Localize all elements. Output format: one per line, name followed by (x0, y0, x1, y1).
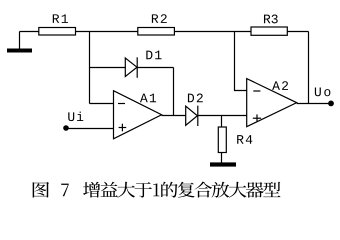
wire R4 bottom to ground (221, 153, 223, 164)
wire to A1 inverting input (90, 103, 114, 105)
resistor R2 (138, 28, 175, 36)
caption char 益 (100, 182, 117, 197)
wire vertical D1 to A1 output (173, 68, 175, 116)
op-amp A1 (114, 91, 162, 139)
caption char 图 (33, 182, 49, 198)
label D1 (146, 51, 161, 60)
caption char 1 (153, 183, 159, 196)
wire R3 right vertical to output (308, 32, 310, 104)
wire D2 cathode to A2 noninverting input (198, 115, 247, 117)
wire R3 to output vertical (287, 31, 308, 33)
caption char 大 (229, 182, 247, 198)
caption char 7 (61, 184, 68, 197)
resistor R3 (251, 27, 287, 35)
diode D1 (125, 57, 137, 78)
label R4 (237, 135, 252, 144)
ground stub wire (19, 32, 21, 50)
caption char 大 (117, 182, 135, 198)
label Uo (315, 88, 331, 97)
label R3 (264, 15, 278, 24)
diode D2 (186, 106, 198, 126)
ground (below R4) (210, 162, 236, 166)
label R1 (53, 14, 68, 23)
wire node A vertical feedback left (89, 32, 91, 104)
label Ui (68, 112, 83, 122)
ground (top left) (7, 49, 32, 53)
resistor R1 (39, 28, 76, 36)
node Ui terminal dot (63, 125, 69, 131)
wire A1 output to D2 anode (162, 115, 186, 117)
caption char 的 (161, 182, 177, 198)
wire D1 cathode to vertical (137, 67, 173, 69)
wire R2 to R3 (174, 31, 251, 33)
caption char 增 (83, 182, 100, 198)
wire branch to D1 anode (90, 67, 126, 69)
caption 图 7 增益大于1的复合放大器型 (33, 182, 281, 198)
caption char 于 (135, 182, 152, 197)
caption char 复 (178, 182, 195, 198)
caption char 放 (212, 182, 230, 198)
wire A2 output to Uo dot (297, 103, 331, 105)
wire top rail ground to R1 (20, 31, 39, 33)
wire R1 to R2 (76, 31, 138, 33)
caption char 器 (246, 182, 264, 198)
caption char 型 (263, 182, 280, 197)
label A2 (272, 81, 288, 90)
label D2 (188, 94, 203, 103)
wire node B vertical to A2 inverting input (235, 32, 247, 91)
op-amp A2 (247, 79, 297, 127)
label A1 (140, 94, 156, 103)
node Uo terminal dot (328, 101, 334, 107)
label R2 (152, 14, 167, 23)
wire Ui to A1 noninverting input (66, 128, 114, 130)
resistor R4 (218, 127, 226, 153)
wire junction to R4 top (221, 116, 223, 128)
caption char 合 (194, 182, 212, 198)
